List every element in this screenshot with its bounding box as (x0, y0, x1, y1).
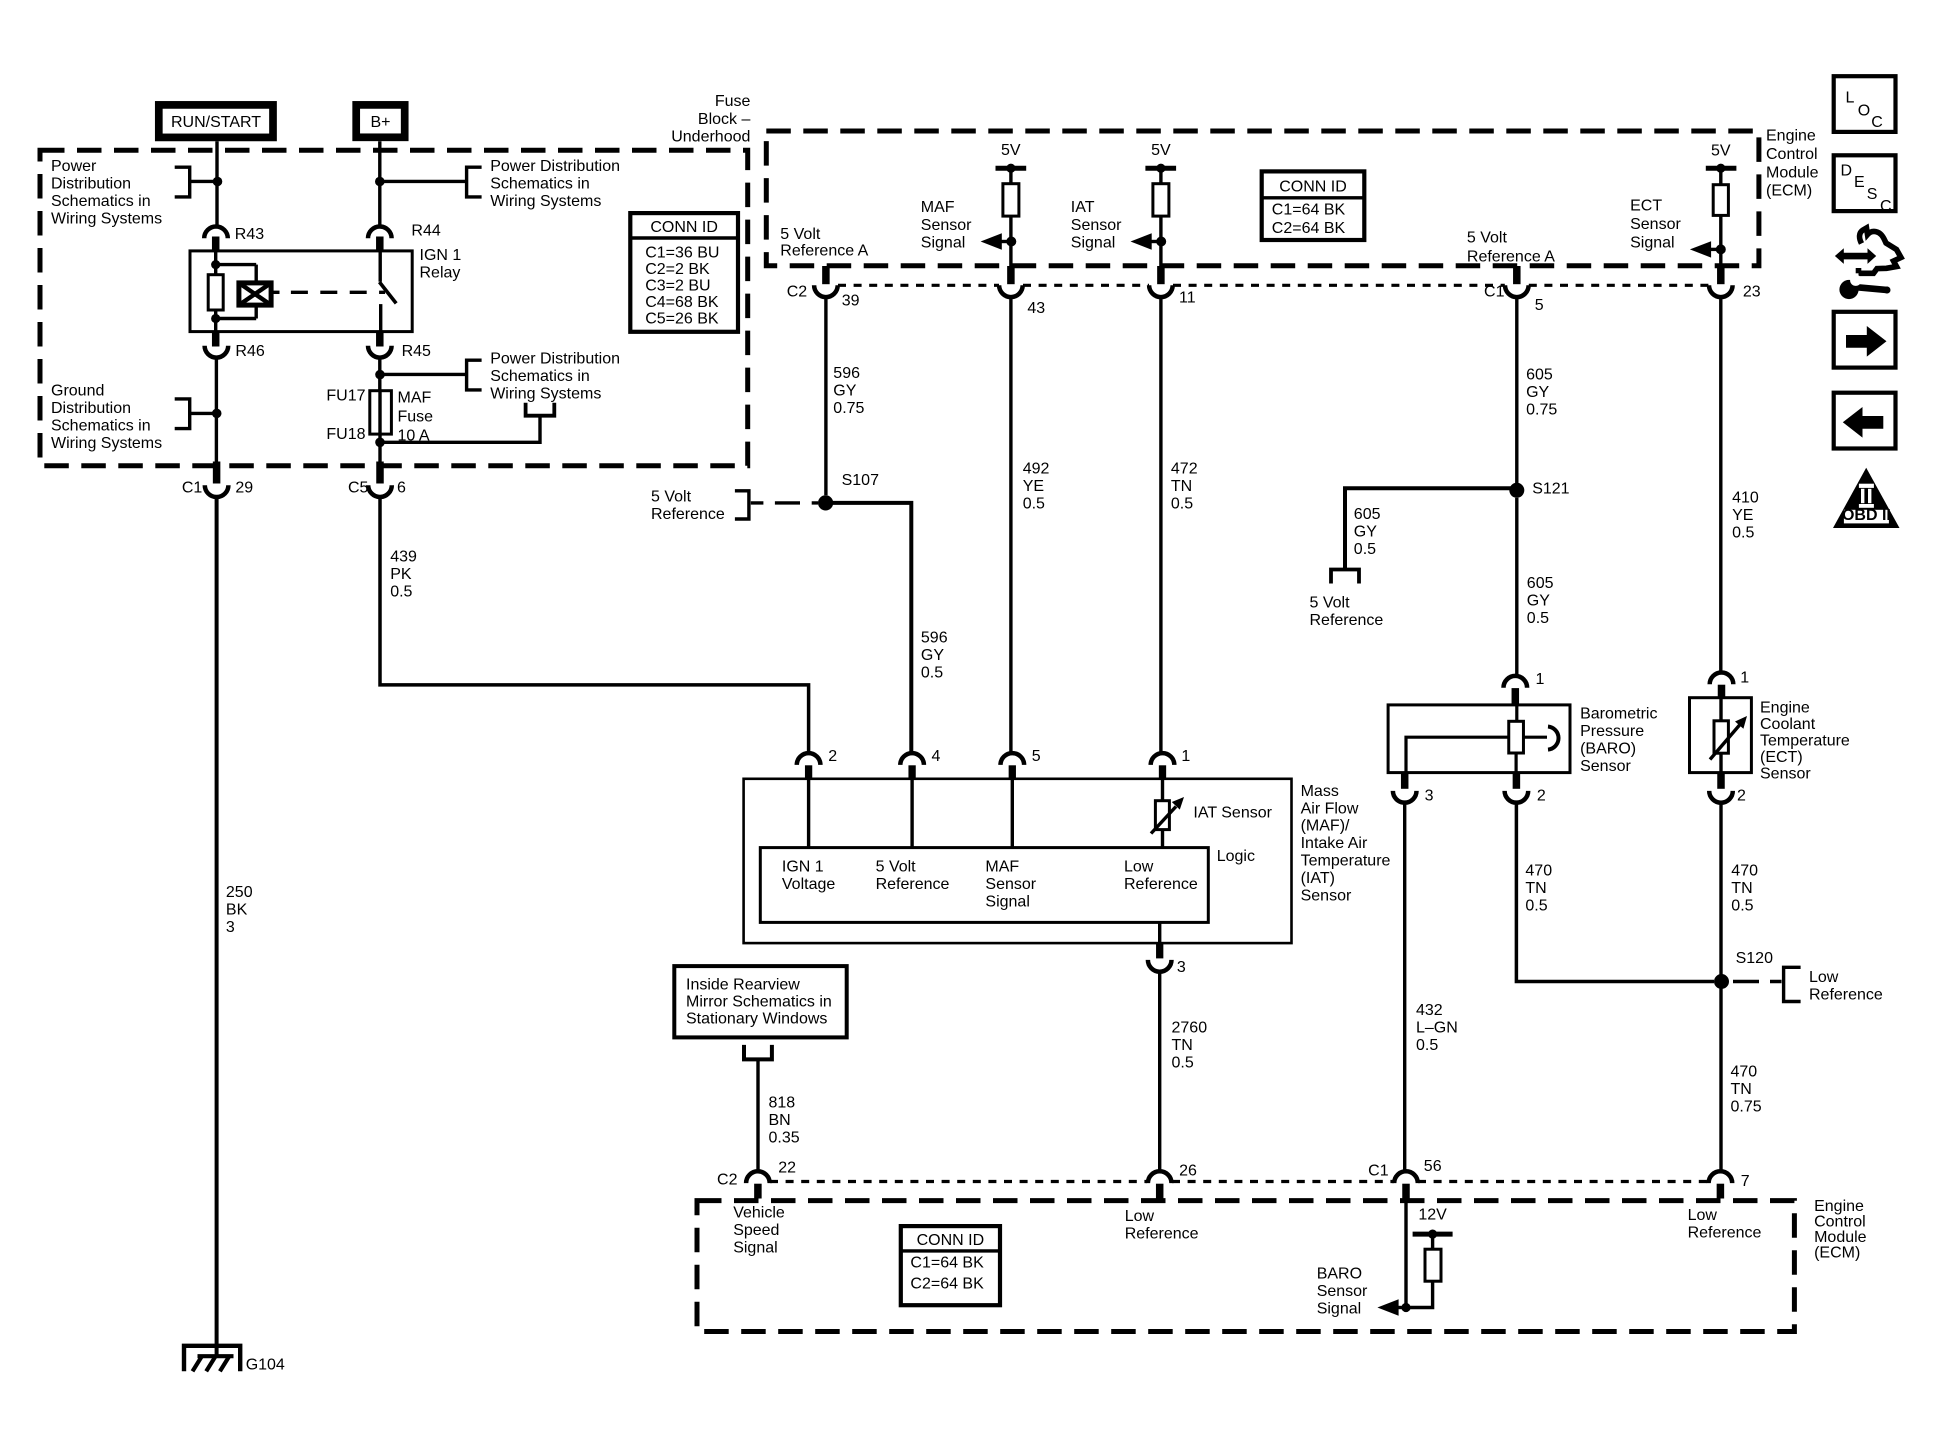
svg-text:39: 39 (842, 292, 860, 309)
svg-text:Reference: Reference (1124, 876, 1198, 893)
svg-text:BN: BN (769, 1112, 791, 1129)
connector R46 (212, 332, 220, 347)
connector pin 23 (1717, 266, 1725, 284)
svg-text:Power Distribution: Power Distribution (490, 158, 620, 175)
svg-text:Underhood: Underhood (671, 128, 750, 145)
connector pin 2 (MAF) (797, 753, 821, 765)
svg-text:C5: C5 (348, 479, 369, 496)
svg-text:0.5: 0.5 (1171, 495, 1193, 512)
connector pin 1 (MAF) (1151, 753, 1175, 765)
ECM top connector dotted line (838, 284, 1709, 287)
svg-text:Stationary Windows: Stationary Windows (686, 1011, 827, 1028)
ECM bottom dashed box (697, 1201, 1794, 1332)
pull-up resistor (MAF) (1003, 184, 1019, 216)
svg-text:Fuse: Fuse (715, 93, 751, 110)
relay switch (379, 251, 382, 281)
OBD II icon triangle (1833, 468, 1900, 528)
svg-text:Coolant: Coolant (1760, 716, 1816, 733)
wire 410 YE 0.5 from 23 to ECT pin 1 (1719, 297, 1722, 672)
svg-text:0.5: 0.5 (1527, 610, 1549, 627)
svg-text:1: 1 (1740, 670, 1749, 687)
wire 605 GY 0.5 branch from S121 to 5 Volt Reference (1345, 488, 1517, 569)
svg-text:43: 43 (1027, 300, 1045, 317)
relay coil X-box (239, 283, 271, 305)
ECM bottom connector dotted line (770, 1180, 1708, 1183)
MAF sensor signal arrow (997, 240, 1011, 243)
wire 605 GY 0.75 from C1/5 to S121 (1515, 297, 1518, 483)
svg-text:Mass: Mass (1301, 783, 1339, 800)
svg-text:R44: R44 (411, 222, 440, 239)
svg-text:(ECT): (ECT) (1760, 749, 1803, 766)
reference bracket Power Distribution (above fuse) (467, 360, 482, 390)
svg-text:Sensor: Sensor (1760, 766, 1811, 783)
svg-text:Signal: Signal (1317, 1301, 1361, 1318)
wire 596 GY 0.75 from C2/39 to S107 (824, 297, 827, 495)
svg-text:Module: Module (1766, 164, 1819, 181)
wire 470 TN from ECT pin 2 through S120 to pin 7 (1719, 803, 1722, 1172)
svg-text:CONN ID: CONN ID (1279, 179, 1347, 196)
svg-text:D: D (1841, 163, 1853, 180)
svg-text:Power: Power (51, 158, 97, 175)
svg-text:5: 5 (1535, 297, 1544, 314)
svg-text:GY: GY (921, 647, 944, 664)
svg-text:Reference: Reference (876, 876, 950, 893)
BARO sensor signal junction (1401, 1303, 1410, 1312)
svg-text:Signal: Signal (1630, 235, 1674, 252)
svg-text:Relay: Relay (420, 264, 461, 281)
svg-text:GY: GY (833, 383, 856, 400)
Inside Rearview Mirror reference box (674, 966, 846, 1037)
svg-text:Voltage: Voltage (782, 876, 835, 893)
wire resistor to pin 23 (1719, 215, 1722, 266)
svg-text:470: 470 (1525, 862, 1552, 879)
svg-text:Signal: Signal (921, 235, 965, 252)
svg-text:Reference: Reference (1125, 1226, 1199, 1243)
ECT sensor signal arrow (1707, 248, 1721, 251)
svg-text:0.5: 0.5 (1525, 897, 1547, 914)
svg-text:Sensor: Sensor (1630, 216, 1681, 233)
BARO sensor signal arrow (1393, 1306, 1406, 1309)
svg-text:4: 4 (932, 748, 941, 765)
svg-text:Distribution: Distribution (51, 176, 131, 193)
svg-text:1: 1 (1536, 671, 1545, 688)
svg-text:3: 3 (1177, 959, 1186, 976)
node junction above fuse (375, 370, 385, 380)
svg-text:Low: Low (1688, 1207, 1718, 1224)
svg-text:Distribution: Distribution (51, 400, 131, 417)
svg-text:439: 439 (390, 548, 417, 565)
wire pin 56 to BARO signal junction (1404, 1199, 1407, 1308)
svg-text:CONN ID: CONN ID (650, 219, 718, 236)
svg-text:GY: GY (1527, 593, 1550, 610)
svg-text:G104: G104 (246, 1357, 285, 1374)
svg-text:23: 23 (1743, 284, 1761, 301)
relay coil branch wires (214, 251, 217, 274)
svg-text:Logic: Logic (1217, 848, 1255, 865)
svg-text:Ground: Ground (51, 383, 104, 400)
svg-text:56: 56 (1424, 1158, 1442, 1175)
svg-text:C2: C2 (787, 283, 808, 300)
svg-text:B+: B+ (370, 114, 390, 131)
svg-text:C2=64 BK: C2=64 BK (910, 1275, 984, 1292)
svg-text:C1=36 BU: C1=36 BU (645, 245, 719, 262)
svg-text:Schematics in: Schematics in (51, 193, 151, 210)
svg-text:818: 818 (769, 1094, 796, 1111)
splice S107 (818, 495, 833, 510)
connector R45 (376, 332, 384, 347)
svg-text:Sensor: Sensor (921, 217, 972, 234)
svg-text:MAF: MAF (921, 199, 955, 216)
connector C5 pin 6 (376, 462, 384, 484)
connector pin 4 (MAF) (900, 753, 924, 765)
svg-text:C3=2 BU: C3=2 BU (645, 278, 710, 295)
svg-text:Fuse: Fuse (398, 409, 434, 426)
wire 472 TN 0.5 from 11 to MAF pin 1 (1159, 297, 1162, 753)
relay IGN 1 box (190, 251, 412, 332)
svg-text:IAT Sensor: IAT Sensor (1193, 805, 1272, 822)
reference bracket Power Distribution (right of B+) (467, 167, 482, 197)
DESC icon box (1834, 155, 1896, 211)
svg-text:5 Volt: 5 Volt (1310, 595, 1351, 612)
svg-text:29: 29 (235, 479, 253, 496)
svg-text:R45: R45 (402, 343, 431, 360)
svg-text:3: 3 (1425, 787, 1434, 804)
svg-text:Barometric: Barometric (1580, 705, 1657, 722)
svg-text:Signal: Signal (1071, 235, 1115, 252)
svg-text:L: L (1846, 90, 1855, 107)
svg-text:Pressure: Pressure (1580, 723, 1644, 740)
svg-text:Schematics in: Schematics in (490, 176, 590, 193)
svg-text:Temperature: Temperature (1301, 853, 1391, 870)
svg-text:5V: 5V (1711, 143, 1731, 160)
MAF/IAT sensor outer box (744, 779, 1292, 943)
svg-text:(ECM): (ECM) (1814, 1244, 1860, 1261)
logic box (760, 848, 1208, 923)
svg-text:FU18: FU18 (326, 426, 365, 443)
svg-text:605: 605 (1526, 367, 1553, 384)
svg-text:C: C (1880, 198, 1892, 215)
connector C2 pin 22 (746, 1171, 770, 1183)
svg-text:C2=2 BK: C2=2 BK (645, 261, 710, 278)
svg-text:Mirror Schematics in: Mirror Schematics in (686, 994, 832, 1011)
ECM top dashed box (766, 131, 1759, 266)
relay coil bottom junction (211, 314, 220, 323)
svg-text:S107: S107 (842, 472, 879, 489)
svg-text:(BARO): (BARO) (1580, 740, 1636, 757)
svg-text:Reference A: Reference A (1467, 248, 1555, 265)
svg-text:Sensor: Sensor (1580, 758, 1631, 775)
node junction for ground distribution (212, 409, 222, 419)
svg-text:410: 410 (1732, 489, 1759, 506)
svg-text:0.5: 0.5 (1731, 897, 1753, 914)
back arrow icon box (1834, 393, 1896, 449)
svg-text:Low: Low (1124, 859, 1154, 876)
wire 605 GY 0.5 from S121 to BARO pin 1 (1515, 498, 1518, 676)
connector C2 pin 39 (822, 266, 830, 284)
splice S120 (1714, 974, 1729, 989)
svg-text:R46: R46 (235, 343, 264, 360)
svg-text:Schematics in: Schematics in (490, 368, 590, 385)
pull-up resistor (ECT) (1713, 185, 1728, 216)
svg-text:C4=68 BK: C4=68 BK (645, 294, 719, 311)
svg-text:Inside Rearview: Inside Rearview (686, 977, 800, 994)
svg-text:Signal: Signal (733, 1240, 777, 1257)
svg-text:TN: TN (1731, 880, 1752, 897)
svg-text:C: C (1871, 114, 1883, 131)
connector pin 3 (BARO) (1401, 773, 1409, 789)
wire 432 L-GN 0.5 from BARO pin 3 to pin 56 (1403, 803, 1406, 1172)
svg-text:YE: YE (1023, 478, 1044, 495)
svg-text:Sensor: Sensor (1071, 217, 1122, 234)
svg-text:Engine: Engine (1766, 128, 1816, 145)
svg-text:Temperature: Temperature (1760, 732, 1850, 749)
connector pin 1 (ECT) (1710, 672, 1734, 684)
connector R44 (368, 227, 392, 239)
node junction below fuse (375, 438, 385, 448)
ECT sensor box (1690, 698, 1752, 773)
svg-text:0.35: 0.35 (769, 1129, 800, 1146)
svg-text:605: 605 (1354, 506, 1381, 523)
svg-text:Vehicle: Vehicle (733, 1205, 785, 1222)
svg-text:Reference: Reference (1809, 986, 1883, 1003)
reference bracket 5 Volt Reference (S121) (1331, 570, 1359, 584)
svg-text:6: 6 (397, 479, 406, 496)
svg-text:IGN 1: IGN 1 (782, 859, 824, 876)
svg-text:5 Volt: 5 Volt (876, 859, 917, 876)
svg-text:5V: 5V (1151, 142, 1171, 159)
relay actuation dashed link (271, 291, 279, 294)
reference bracket below Wiring Systems text (526, 403, 555, 416)
wire R45 to MAF fuse (378, 358, 381, 391)
IAT sensor signal junction (1156, 237, 1166, 247)
wire below fuse to bracket (380, 417, 540, 442)
BARO sensor box (1388, 705, 1570, 773)
svg-text:S120: S120 (1736, 950, 1773, 967)
svg-text:0.5: 0.5 (1416, 1037, 1438, 1054)
svg-text:Engine: Engine (1760, 700, 1810, 717)
node junction on RUN/START wire (213, 177, 223, 187)
svg-text:5 Volt: 5 Volt (651, 488, 692, 505)
svg-text:OBD II: OBD II (1842, 507, 1891, 524)
svg-text:GY: GY (1354, 524, 1377, 541)
wire 596 GY 0.5 from S107 to MAF pin 4 (826, 503, 912, 754)
svg-text:Low: Low (1809, 969, 1839, 986)
BARO transducer symbol (1515, 705, 1518, 721)
CONN ID table (fuse block) (630, 213, 738, 332)
svg-text:0.75: 0.75 (1731, 1099, 1762, 1116)
svg-text:470: 470 (1731, 1064, 1758, 1081)
pull-up resistor (IAT) (1153, 184, 1169, 216)
svg-text:C1: C1 (182, 479, 203, 496)
LOC icon box (1834, 76, 1896, 132)
svg-text:605: 605 (1527, 575, 1554, 592)
CONN ID table (ECM top) (1262, 171, 1365, 240)
svg-text:C1: C1 (1484, 284, 1505, 301)
svg-text:S121: S121 (1532, 481, 1569, 498)
svg-text:2: 2 (1537, 787, 1546, 804)
svg-text:(MAF)/: (MAF)/ (1301, 818, 1350, 835)
connector pin 1 (BARO) (1504, 676, 1528, 688)
5 Volt Reference dashed stub (S107) (751, 501, 818, 504)
svg-text:Reference: Reference (651, 506, 725, 523)
forward arrow icon box (1834, 312, 1896, 368)
svg-text:432: 432 (1416, 1002, 1443, 1019)
MAF sensor signal junction (1006, 237, 1016, 247)
svg-text:Reference: Reference (1310, 612, 1384, 629)
svg-text:0.5: 0.5 (1354, 541, 1376, 558)
IAT thermistor (1155, 801, 1169, 830)
node junction on B+ wire (375, 177, 385, 187)
svg-text:TN: TN (1525, 880, 1546, 897)
svg-text:Intake Air: Intake Air (1301, 835, 1368, 852)
connector pin 26 (1148, 1171, 1172, 1183)
svg-text:TN: TN (1731, 1081, 1752, 1098)
relay coil top junction (211, 260, 220, 269)
svg-text:BARO: BARO (1317, 1266, 1362, 1283)
svg-text:C1=64 BK: C1=64 BK (910, 1255, 984, 1272)
svg-text:0.5: 0.5 (921, 665, 943, 682)
svg-text:596: 596 (921, 630, 948, 647)
svg-text:BK: BK (226, 902, 248, 919)
svg-text:C1: C1 (1368, 1162, 1389, 1179)
svg-text:5 Volt: 5 Volt (1467, 230, 1508, 247)
splice S121 (1509, 483, 1524, 498)
svg-text:MAF: MAF (985, 859, 1019, 876)
svg-text:O: O (1858, 103, 1870, 120)
reference bracket Ground Distribution (175, 399, 190, 429)
reference bracket Power Distribution (left) (175, 167, 190, 197)
relay coil bottom wires (214, 310, 217, 332)
svg-text:12V: 12V (1418, 1207, 1447, 1224)
svg-text:Reference: Reference (1688, 1225, 1762, 1242)
svg-text:0.5: 0.5 (390, 583, 412, 600)
svg-text:5: 5 (1032, 748, 1041, 765)
wire RUN/START to R43 (215, 141, 218, 227)
wire to Power Distribution bracket (right of B+) (380, 180, 467, 183)
svg-text:Reference A: Reference A (780, 242, 868, 259)
svg-text:3: 3 (226, 919, 235, 936)
svg-text:Wiring Systems: Wiring Systems (51, 435, 162, 452)
svg-text:E: E (1854, 174, 1865, 191)
internal wires to logic box (809, 780, 1163, 848)
svg-text:11: 11 (1179, 289, 1196, 306)
svg-text:MAF: MAF (398, 390, 432, 407)
svg-text:TN: TN (1172, 1037, 1193, 1054)
svg-text:C2: C2 (717, 1171, 738, 1188)
svg-text:Wiring Systems: Wiring Systems (51, 211, 162, 228)
svg-text:R43: R43 (235, 226, 264, 243)
svg-text:GY: GY (1526, 384, 1549, 401)
svg-text:0.5: 0.5 (1023, 495, 1045, 512)
svg-text:ECT: ECT (1630, 198, 1662, 215)
svg-text:250: 250 (226, 884, 253, 901)
svg-text:0.5: 0.5 (1732, 524, 1754, 541)
connector pin 2 (ECT) (1717, 773, 1725, 789)
svg-text:RUN/START: RUN/START (171, 114, 261, 131)
connector pin 7 (1709, 1171, 1733, 1183)
connector C1 pin 56 (1394, 1171, 1418, 1183)
Low Reference dashed stub (S120) (1733, 980, 1782, 983)
svg-text:Sensor: Sensor (1301, 887, 1352, 904)
connector C1 pin 5 (1513, 266, 1521, 284)
svg-text:IGN 1: IGN 1 (420, 247, 462, 264)
svg-text:26: 26 (1179, 1162, 1197, 1179)
svg-text:C5=26 BK: C5=26 BK (645, 311, 719, 328)
svg-text:L–GN: L–GN (1416, 1020, 1458, 1037)
svg-text:0.75: 0.75 (833, 400, 864, 417)
B+ power feed box (356, 105, 405, 137)
reference bracket 5 Volt Reference (S107) (735, 491, 749, 519)
svg-text:Sensor: Sensor (1317, 1283, 1368, 1300)
wire to Power Distribution bracket (above fuse) (380, 373, 467, 376)
svg-text:Low: Low (1125, 1208, 1155, 1225)
svg-text:TN: TN (1171, 478, 1192, 495)
pull-up resistor (BARO) (1425, 1249, 1441, 1281)
svg-text:(IAT): (IAT) (1301, 870, 1335, 887)
connector pin 5 (MAF) (1001, 753, 1025, 765)
svg-text:Block –: Block – (698, 111, 751, 128)
fuse block underhood dashed box (40, 150, 748, 465)
svg-text:0.75: 0.75 (1526, 402, 1557, 419)
svg-text:1: 1 (1181, 748, 1190, 765)
wire 439 PK from C5 to MAF pin 2 (380, 497, 809, 753)
svg-text:Wiring Systems: Wiring Systems (490, 386, 601, 403)
wire R46 to C1 pin 29 (215, 358, 218, 462)
wire 492 YE 0.5 from 43 to MAF pin 5 (1009, 297, 1012, 753)
harness routing icon (double arrow, outline, wrench) (1835, 248, 1876, 264)
svg-text:CONN ID: CONN ID (917, 1232, 985, 1249)
svg-text:S: S (1867, 186, 1878, 203)
connector pin 2 (BARO) (1513, 773, 1521, 789)
svg-text:Control: Control (1766, 146, 1818, 163)
svg-text:C2=64 BK: C2=64 BK (1272, 220, 1346, 237)
svg-text:Sensor: Sensor (985, 876, 1036, 893)
wire B+ to R44 (378, 141, 381, 227)
svg-text:C1=64 BK: C1=64 BK (1272, 201, 1346, 218)
wire resistor to pin 11 (1159, 216, 1162, 266)
reference bracket below mirror box (744, 1045, 772, 1060)
svg-text:5 Volt: 5 Volt (780, 226, 821, 243)
wire 470 TN 0.5 from BARO pin 2 to S120 (1516, 803, 1714, 982)
svg-text:PK: PK (390, 566, 412, 583)
connector pin 11 (1157, 266, 1165, 284)
RUN/START power feed box (159, 105, 273, 137)
svg-text:0.5: 0.5 (1172, 1055, 1194, 1072)
reference bracket Low Reference (S120) (1784, 967, 1801, 1001)
svg-text:Schematics in: Schematics in (51, 418, 151, 435)
connector pin 3 (MAF) (1158, 922, 1161, 943)
svg-text:2: 2 (1737, 787, 1746, 804)
svg-text:Speed: Speed (733, 1222, 779, 1239)
svg-text:YE: YE (1732, 507, 1753, 524)
svg-text:Wiring Systems: Wiring Systems (490, 193, 601, 210)
svg-text:5V: 5V (1001, 142, 1021, 159)
svg-text:Air Flow: Air Flow (1301, 800, 1359, 817)
wire resistor to pin 43 (1009, 216, 1012, 266)
svg-text:2: 2 (828, 748, 837, 765)
svg-text:2760: 2760 (1172, 1020, 1208, 1037)
svg-text:470: 470 (1731, 862, 1758, 879)
svg-text:472: 472 (1171, 460, 1198, 477)
connector C1 pin 29 (213, 462, 221, 484)
svg-text:22: 22 (778, 1160, 796, 1177)
wire 2760 TN 0.5 to pin 26 (1158, 972, 1161, 1172)
connector R43 (204, 227, 228, 239)
wire 818 BN from mirror bracket to C2/22 (756, 1059, 759, 1171)
IAT sensor signal arrow (1147, 240, 1161, 243)
ground G104 (184, 1346, 240, 1372)
svg-text:492: 492 (1023, 460, 1050, 477)
